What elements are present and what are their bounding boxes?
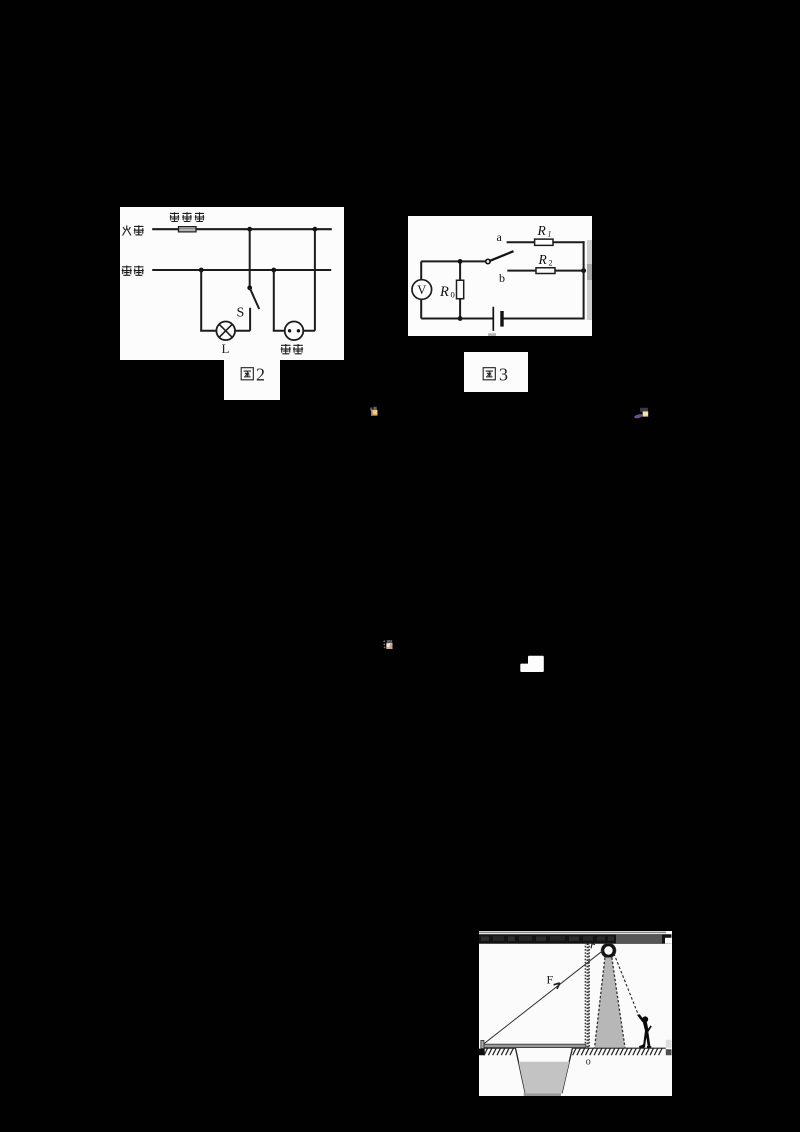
wire: neutral to lamp xyxy=(200,270,216,331)
figure 4 panel: plank-pulley-pit diagram xyxy=(479,931,672,1096)
artifact speck left xyxy=(370,407,378,416)
wire: contact a branch xyxy=(507,241,535,243)
water in pit xyxy=(519,1062,570,1094)
scan band dark strip with garbled text xyxy=(479,934,672,944)
fuse (熔断器) on live wire xyxy=(179,227,197,232)
ground line left of pit xyxy=(483,1047,516,1049)
voltmeter V xyxy=(412,261,432,318)
wire: R1 to right rail xyxy=(553,241,585,243)
person pulling rope xyxy=(637,1014,652,1048)
battery cell xyxy=(493,307,502,331)
switch S pivot xyxy=(247,285,252,290)
artifact speck right xyxy=(634,408,649,419)
switch S fixed contact xyxy=(249,308,251,331)
switch blade toward contact a xyxy=(490,251,514,261)
rope from plank end over pulley (force line) xyxy=(484,950,604,1044)
vertical dotted post xyxy=(585,943,589,1048)
wire: lamp to switch contact xyxy=(235,330,250,332)
ground hatching xyxy=(484,1048,662,1055)
figure 2 panel: household wiring circuit xyxy=(120,207,344,360)
grey scan smudge below battery xyxy=(488,333,496,336)
grey scan shadow right edge xyxy=(587,240,592,320)
node: junction top of R0 xyxy=(458,259,463,264)
switch S blade xyxy=(250,288,260,309)
label R2 xyxy=(538,252,553,268)
label 熔断器 (fuse) xyxy=(170,212,205,222)
wire: contact b branch xyxy=(507,270,536,272)
label 零线 (neutral wire) xyxy=(122,265,144,275)
label R1 xyxy=(537,223,552,239)
right edge grey marks xyxy=(666,1040,672,1055)
raised plank (grey triangle) xyxy=(595,958,625,1048)
scan band top grey rule xyxy=(479,932,666,934)
lamp L xyxy=(216,321,235,340)
junction on live wire above socket branch xyxy=(313,227,318,232)
svg-text:3: 3 xyxy=(499,365,508,385)
label R0 xyxy=(439,284,455,300)
junction on live wire above switch xyxy=(247,227,252,232)
caption 图 2 xyxy=(224,359,280,400)
svg-text:o: o xyxy=(586,1057,591,1068)
wire: socket to live line xyxy=(303,229,315,331)
resistor R0 xyxy=(456,261,463,318)
label 火线 (live wire) xyxy=(123,225,144,235)
rope from pulley to person (dashed) xyxy=(614,954,639,1017)
node: junction of R2 with right rail xyxy=(581,268,586,273)
socket 插座 xyxy=(285,322,304,341)
wire: bottom rail xyxy=(421,317,584,319)
wire: neutral line xyxy=(152,269,331,271)
glyph 图 of caption 3 xyxy=(483,368,495,380)
plank lying across pit xyxy=(481,1040,586,1048)
white L-shaped blob xyxy=(520,656,544,672)
arrowhead of F xyxy=(554,983,560,989)
wire: top-left loop wire xyxy=(421,260,487,262)
label 插座 (socket) xyxy=(281,344,303,354)
dark mark at left edge xyxy=(479,1049,485,1056)
pulley xyxy=(601,943,616,958)
pit right wall xyxy=(562,1048,573,1093)
resistor R1 xyxy=(535,239,553,245)
junction on neutral wire above socket branch xyxy=(271,268,276,273)
wire: neutral to socket xyxy=(273,270,285,331)
pit left wall xyxy=(515,1048,525,1093)
svg-text:F: F xyxy=(547,972,554,986)
wire: right rail xyxy=(583,241,585,318)
glyph 图 of caption 2 xyxy=(241,368,253,380)
resistor R2 xyxy=(536,268,555,274)
artifact speck middle xyxy=(383,640,392,649)
junction on neutral wire above lamp branch xyxy=(199,268,204,273)
figure 3 panel: Rx measuring circuit xyxy=(408,216,592,336)
pit bottom shadow xyxy=(524,1093,561,1096)
ground line right of pit xyxy=(572,1047,665,1049)
pulley hook xyxy=(591,944,595,949)
svg-text:2: 2 xyxy=(256,364,265,384)
switch pivot xyxy=(486,259,490,263)
wire: live line xyxy=(152,228,332,230)
caption 图 3 xyxy=(464,352,528,392)
node: junction bottom of R0 xyxy=(458,316,463,321)
wire: switch drop from live line xyxy=(249,229,251,288)
wire: R2 to right rail xyxy=(555,270,585,272)
